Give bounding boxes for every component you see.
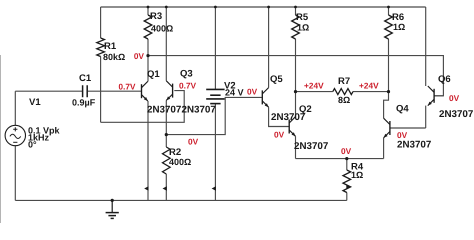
node: Q1 collector feedback tap xyxy=(146,54,149,57)
label V1 value 3 xyxy=(28,141,36,147)
wire R3 top lead xyxy=(147,7,149,15)
transistor Q2 xyxy=(289,117,295,137)
wire V1 bottom lead xyxy=(14,146,16,201)
wire R3 bottom lead to Q1 collector xyxy=(147,39,149,81)
label probe +24V right of R7 xyxy=(359,83,378,89)
label probe 0V at R3 bottom xyxy=(134,53,144,59)
node: rail junction R6 xyxy=(387,6,390,9)
ground xyxy=(106,200,119,218)
resistor R7 xyxy=(333,89,353,95)
wire R4 top lead xyxy=(346,159,348,170)
wire R1 top lead xyxy=(100,7,102,38)
decorative left window edge xyxy=(0,55,2,223)
label C1 designator xyxy=(79,74,91,81)
current arrow on R2 ground lead xyxy=(163,186,167,191)
label R3 designator xyxy=(151,12,162,19)
label R6 designator xyxy=(393,13,404,20)
label V1 value 1 xyxy=(28,127,59,135)
current arrow on Q1 emitter ground lead xyxy=(144,186,148,191)
wire output node wire xyxy=(296,158,384,160)
label R7 value xyxy=(338,97,350,103)
label C1 value xyxy=(72,99,95,107)
wire bottom ground rail xyxy=(15,199,347,201)
wire R4 bottom lead xyxy=(346,193,348,201)
label probe 0.7V at Q3 xyxy=(179,83,196,89)
label R2 value xyxy=(169,159,191,165)
label Q5 designator xyxy=(270,75,282,84)
node: R2 top / Q3 emitter xyxy=(165,133,168,136)
label R2 designator xyxy=(170,148,181,155)
label Q4 model xyxy=(397,141,431,148)
label probe 0V at R2 top xyxy=(188,139,198,145)
current arrow on V2 ground lead xyxy=(212,186,216,191)
wire Q5 collector lead to rail xyxy=(268,7,270,88)
label probe 0V at output node xyxy=(341,148,351,154)
transistor Q1 xyxy=(142,81,148,101)
label R3 value xyxy=(151,25,173,31)
wire Q4 base to Q6 emitter xyxy=(390,127,426,129)
wire Q4 emitter lead xyxy=(383,138,385,159)
wire Q5 emitter to Q2 base xyxy=(269,107,290,126)
label Q4 designator xyxy=(396,105,408,114)
resistor R1 xyxy=(97,38,105,57)
label R5 value xyxy=(298,24,309,30)
battery V2 xyxy=(206,89,224,103)
label probe +24V left of R7 xyxy=(304,83,323,89)
label probe 0V at Q6 base xyxy=(449,95,459,101)
label Q6 model xyxy=(439,110,473,117)
node: R5 R7 Q2 collector xyxy=(294,90,297,93)
node: ground tap on rail xyxy=(111,199,114,202)
wire top +24V rail xyxy=(101,6,426,8)
wire input right segment C1 to Q1 base xyxy=(88,90,142,92)
label R4 designator xyxy=(352,163,364,170)
wire Q6 base lead xyxy=(434,95,443,97)
node: rail junction R3 xyxy=(147,6,150,9)
label Q3 model xyxy=(182,106,216,113)
node: rail junction Q5 collector xyxy=(267,6,270,9)
node: rail junction V2 xyxy=(214,6,217,9)
wire Q6 emitter lead xyxy=(425,106,427,128)
label Q1 designator xyxy=(147,70,159,79)
wire R5 bottom lead to Q2 collector xyxy=(295,39,297,117)
resistor R6 xyxy=(385,15,393,39)
wire V2 top lead xyxy=(214,7,216,89)
label V1 value 2 xyxy=(29,134,49,141)
label Q6 designator xyxy=(438,75,450,84)
wire rail corner down to Q6 collector xyxy=(425,7,427,86)
current arrow on R4 ground lead xyxy=(346,185,350,190)
transistor Q4 xyxy=(384,118,390,138)
wire R2 top node to Q5 base xyxy=(166,97,262,134)
resistor R3 xyxy=(144,15,152,39)
label V2 designator xyxy=(224,82,235,89)
transistor Q3 xyxy=(166,81,172,101)
label Q3 designator xyxy=(180,70,192,79)
label Q1 model xyxy=(147,106,181,113)
resistor R4 xyxy=(343,170,351,193)
label V1 designator xyxy=(29,99,40,106)
label R6 value xyxy=(394,24,405,30)
wire V1 top lead xyxy=(14,91,16,125)
label Q5 model xyxy=(271,113,305,120)
wire feedback wire collector Q1 to Q6 base xyxy=(148,56,443,96)
wire R2 bottom lead xyxy=(165,174,167,200)
label R5 designator xyxy=(297,14,308,21)
node: rail junction Q3 collector xyxy=(165,6,168,9)
label R1 designator xyxy=(105,43,116,50)
node: output / R4 top xyxy=(345,157,348,160)
resistor R5 xyxy=(292,15,300,39)
wire Q1 emitter to ground rail xyxy=(147,101,149,200)
wire Q3 emitter to R2 xyxy=(165,100,167,147)
wire R5 top lead xyxy=(295,7,297,15)
label R7 designator xyxy=(339,78,350,85)
label probe 0V at Q2 base xyxy=(274,132,284,138)
label probe 0V at Q4 base xyxy=(397,132,407,138)
label probe 0V at Q5 base xyxy=(247,89,257,95)
wire R6 bottom lead jog to Q4 collector xyxy=(384,39,389,118)
label V2 value xyxy=(225,89,243,95)
wire V2 bottom lead xyxy=(214,104,216,201)
wire R1 bottom lead crossing input xyxy=(100,57,102,123)
transistor Q6 xyxy=(428,86,434,106)
label probe 0.7V at Q1 base xyxy=(119,84,136,90)
wire R7 right lead xyxy=(353,91,389,93)
wire R7 left lead xyxy=(296,91,333,93)
AC source V1 xyxy=(5,125,25,145)
wire Q2 emitter lead xyxy=(295,136,297,158)
node: rail junction R5 xyxy=(294,6,297,9)
wire Q3 collector lead to rail xyxy=(165,7,167,81)
label Q2 designator xyxy=(299,105,311,114)
transistor Q5 xyxy=(262,88,268,108)
node: R6 R7 Q4 collector xyxy=(387,90,390,93)
label Q2 model xyxy=(294,142,328,149)
wire input left segment V1 to C1 xyxy=(15,90,82,92)
wire R1 to Q3 base xyxy=(101,91,185,123)
resistor R2 xyxy=(163,147,171,174)
label R4 value xyxy=(352,172,363,178)
capacitor C1 xyxy=(83,85,88,97)
wire R6 top lead xyxy=(388,7,390,15)
label R1 value xyxy=(103,54,125,61)
